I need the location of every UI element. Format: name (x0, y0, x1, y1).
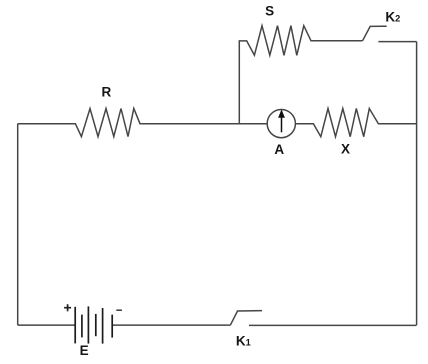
svg-text:R: R (102, 84, 112, 99)
svg-text:A: A (274, 142, 284, 157)
svg-text:X: X (341, 142, 350, 157)
svg-text:S: S (265, 4, 274, 19)
svg-text:E: E (80, 343, 89, 358)
